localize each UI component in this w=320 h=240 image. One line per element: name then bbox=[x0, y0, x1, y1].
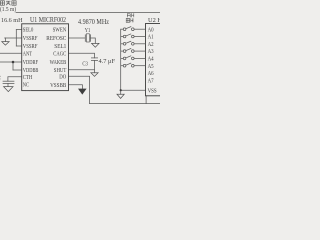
svg-text:VSSRF: VSSRF bbox=[23, 35, 38, 42]
svg-text:CAGC: CAGC bbox=[53, 50, 66, 57]
svg-text:NC: NC bbox=[23, 82, 29, 89]
svg-text:A6: A6 bbox=[148, 71, 154, 77]
wire: bottom data run bbox=[90, 103, 160, 105]
svg-text:DO: DO bbox=[59, 73, 66, 80]
wire: riser from bottom run to U2 body bbox=[145, 96, 147, 104]
svg-text:A0: A0 bbox=[148, 27, 154, 33]
wire: VSSRF1 ground line bbox=[5, 37, 22, 39]
capacitor C2 lower stem bbox=[7, 84, 9, 87]
svg-text:A1: A1 bbox=[148, 35, 154, 41]
wire: VSSRF2 stub bbox=[16, 45, 21, 47]
wire: VDD tie vertical bbox=[12, 62, 14, 70]
svg-text:A3: A3 bbox=[148, 49, 154, 55]
wire: SEL0 stub bbox=[16, 29, 21, 31]
IC U1 MICRF002 body bbox=[22, 24, 69, 91]
capacitor C2 plates (CTH) bbox=[3, 80, 14, 82]
svg-text:A7: A7 bbox=[148, 78, 154, 84]
crystal Y1 body box bbox=[86, 34, 89, 42]
ground at switch bus bottom (open triangle) bbox=[117, 94, 124, 98]
svg-text:REFOSC: REFOSC bbox=[46, 35, 66, 42]
ground under crystal Y1 (open triangle) bbox=[92, 43, 99, 47]
wire: VSSBB to ground arrow bbox=[69, 85, 83, 89]
wire: crystal to ground bend bbox=[91, 38, 96, 43]
crystal Y1 left plate bbox=[84, 35, 86, 42]
wire: SEL0/VSSRF tie vertical bbox=[15, 30, 17, 46]
svg-text:WAKEB: WAKEB bbox=[50, 59, 67, 66]
svg-text:A4: A4 bbox=[148, 57, 154, 63]
svg-text:SWEN: SWEN bbox=[53, 27, 67, 34]
wire: address switch bus bbox=[120, 29, 122, 94]
svg-text:Y1: Y1 bbox=[85, 28, 91, 34]
wire: VDDRF supply line to left edge bbox=[0, 61, 22, 63]
svg-text:(1.5 m): (1.5 m) bbox=[0, 6, 16, 13]
junction node on VDDRF line bbox=[12, 61, 15, 64]
ground under C2/CTH (open triangle) bbox=[4, 87, 13, 92]
svg-text:A2: A2 bbox=[148, 42, 154, 48]
switch A3 bbox=[121, 48, 146, 52]
label: address (CJK blobs) line 2 bbox=[126, 18, 129, 22]
svg-text:U1 MICRF002: U1 MICRF002 bbox=[30, 16, 66, 24]
capacitor C3 lower stem to SHUT node bbox=[94, 60, 96, 72]
svg-text:VDDRF: VDDRF bbox=[23, 59, 39, 66]
wire: SHUT joining C3 ground node bbox=[69, 69, 95, 71]
wire: whip antenna long rail bbox=[16, 12, 160, 14]
wire: CAGC over to C3 bbox=[69, 53, 95, 58]
wire: DO out and down bbox=[69, 76, 90, 103]
ground stem at VSSRF bbox=[4, 38, 6, 42]
U2 pin labels bbox=[148, 27, 157, 94]
svg-text:A5: A5 bbox=[148, 64, 154, 70]
label: whip antenna (CJK glyph blobs) bbox=[0, 1, 16, 5]
svg-text:C3: C3 bbox=[82, 61, 88, 67]
svg-text:SEL0: SEL0 bbox=[23, 27, 34, 34]
capacitor C3 plates bbox=[91, 57, 97, 59]
svg-text:VSS: VSS bbox=[148, 88, 157, 94]
switch A4 bbox=[121, 56, 146, 60]
svg-text:SEL1: SEL1 bbox=[54, 43, 66, 50]
ground arrow at VSSBB (filled) bbox=[78, 89, 87, 95]
paper background bbox=[0, 0, 160, 110]
switch A1 bbox=[121, 34, 146, 38]
svg-text:16.6 mH: 16.6 mH bbox=[1, 17, 23, 24]
svg-text:ANT: ANT bbox=[23, 50, 32, 57]
svg-text:VSSBB: VSSBB bbox=[50, 82, 66, 89]
wire: VSS line from bus to U2 bbox=[121, 89, 146, 91]
IC U2 decoder body (cut off at right edge) bbox=[146, 24, 164, 96]
junction node at VSS/bus bbox=[120, 89, 122, 91]
switch A0 bbox=[121, 27, 146, 31]
svg-text:CTH: CTH bbox=[23, 74, 33, 81]
wire: VDDBB stub bbox=[13, 69, 22, 71]
svg-text:VSSRF: VSSRF bbox=[23, 43, 38, 50]
U1 pin labels right column bbox=[46, 27, 66, 89]
svg-text:4.9870 MHz: 4.9870 MHz bbox=[78, 18, 109, 26]
address DIP switches A0-A5 bbox=[121, 27, 146, 67]
svg-text:4.7 μF: 4.7 μF bbox=[99, 58, 116, 65]
wire: CTH line and drop to C2 bbox=[8, 77, 22, 81]
ground under C3/SHUT node (open triangle) bbox=[91, 73, 98, 77]
svg-text:U2 HT1: U2 HT1 bbox=[148, 17, 160, 24]
wire: ANT pin line to left edge (to off-page inductor) bbox=[0, 52, 22, 54]
wire: REFOSC to crystal bbox=[69, 37, 86, 39]
ground at VSSRF (open triangle) bbox=[2, 42, 9, 46]
crystal Y1 right plate bbox=[89, 35, 91, 42]
label: 8-bit address (CJK blobs) line 1 bbox=[126, 13, 134, 22]
switch A2 bbox=[121, 41, 146, 45]
U1 pin labels left column bbox=[23, 27, 39, 89]
switch A5 bbox=[121, 63, 146, 67]
